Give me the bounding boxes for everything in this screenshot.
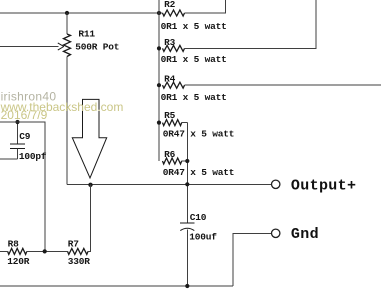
resistor R4 bbox=[161, 73, 227, 103]
node junction bus R5 bbox=[157, 121, 161, 125]
svg-text:C10: C10 bbox=[190, 212, 207, 223]
svg-text:Gnd: Gnd bbox=[291, 226, 319, 243]
wire output rail bbox=[67, 183, 271, 185]
svg-text:0R1 x 5 watt: 0R1 x 5 watt bbox=[161, 21, 227, 32]
wire right branch vertical bbox=[186, 123, 188, 223]
node junction C10 bottom bbox=[185, 284, 189, 288]
node junction top rail to R11 bbox=[65, 11, 69, 15]
node junction R6 right bbox=[185, 159, 189, 163]
wire R11 wiper lead bbox=[0, 46, 59, 48]
node junction bus R4 bbox=[157, 83, 161, 87]
svg-text:0R47 x 5 watt: 0R47 x 5 watt bbox=[163, 128, 235, 139]
wire R11 bottom to output rail corner bbox=[66, 57, 68, 185]
svg-text:C9: C9 bbox=[19, 131, 31, 142]
svg-text:0R1 x 5 watt: 0R1 x 5 watt bbox=[161, 92, 227, 103]
resistor R8 bbox=[0, 238, 30, 267]
resistor R7 bbox=[68, 238, 91, 267]
wire R3 right lead bbox=[185, 0, 317, 48]
resistor R6 bbox=[163, 149, 235, 178]
node junction output rail right branch bbox=[185, 182, 189, 186]
svg-text:500R Pot: 500R Pot bbox=[75, 41, 119, 52]
svg-text:2016/7/9: 2016/7/9 bbox=[1, 108, 48, 122]
svg-text:120R: 120R bbox=[7, 256, 30, 267]
svg-text:330R: 330R bbox=[68, 256, 91, 267]
svg-text:R2: R2 bbox=[164, 0, 176, 10]
svg-text:100uf: 100uf bbox=[189, 231, 217, 242]
wire gnd riser bbox=[233, 233, 272, 286]
resistor R3 bbox=[161, 37, 227, 65]
big arrow pointer bbox=[72, 99, 106, 178]
svg-text:R8: R8 bbox=[8, 238, 20, 249]
wire R6 right lead bbox=[182, 160, 188, 162]
wire gnd rail bottom bbox=[0, 285, 233, 287]
capacitor C10 bbox=[180, 212, 217, 243]
wire C9 bottom lead to left edge bbox=[0, 158, 18, 160]
wire R5 right lead bbox=[182, 122, 188, 124]
svg-text:R4: R4 bbox=[164, 73, 176, 84]
wire left bus vertical bbox=[158, 0, 160, 161]
svg-text:0R1 x 5 watt: 0R1 x 5 watt bbox=[161, 54, 227, 65]
svg-text:0R47 x 5 watt: 0R47 x 5 watt bbox=[163, 167, 235, 178]
capacitor C9 bbox=[10, 122, 47, 162]
node junction bus R3 bbox=[157, 46, 161, 50]
svg-text:Output+: Output+ bbox=[291, 177, 356, 194]
terminal Gnd bbox=[272, 229, 280, 237]
potentiometer R11 bbox=[64, 13, 120, 57]
svg-text:R3: R3 bbox=[164, 37, 176, 48]
wire R8 to R7 bbox=[27, 250, 68, 252]
svg-text:R11: R11 bbox=[78, 29, 95, 40]
node junction R8 R7 left rail bbox=[43, 249, 47, 253]
terminal Output+ bbox=[272, 180, 280, 188]
wiper arrowhead bbox=[58, 43, 64, 50]
node junction C9 top bbox=[15, 120, 19, 124]
resistor R2 bbox=[161, 0, 227, 32]
wire R2 right lead bbox=[185, 0, 226, 13]
wire R7 right lead up to output rail bbox=[88, 184, 91, 251]
svg-text:100pf: 100pf bbox=[19, 151, 47, 162]
wire R4 right lead bbox=[185, 84, 381, 86]
node junction output rail R7 branch bbox=[88, 183, 92, 187]
wire left mid rail bbox=[0, 122, 45, 251]
svg-text:R7: R7 bbox=[68, 238, 80, 249]
node junction top rail to bus bbox=[157, 11, 161, 15]
svg-text:R5: R5 bbox=[164, 110, 176, 121]
svg-text:R6: R6 bbox=[164, 149, 176, 160]
wire top rail bbox=[0, 12, 163, 14]
resistor R5 bbox=[163, 110, 235, 139]
wire C10 bottom lead bbox=[186, 230, 188, 287]
